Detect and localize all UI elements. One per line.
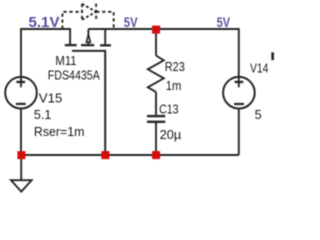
svg-text:Rser=1m: Rser=1m (34, 125, 85, 139)
svg-text:5V: 5V (124, 14, 138, 30)
svg-text:5.1: 5.1 (34, 108, 51, 122)
svg-text:R23: R23 (165, 60, 185, 74)
svg-text:5: 5 (255, 108, 262, 122)
svg-text:1m: 1m (166, 79, 182, 93)
svg-text:C13: C13 (159, 103, 179, 117)
svg-text:5V: 5V (217, 14, 231, 30)
svg-text:V15: V15 (39, 92, 63, 106)
svg-text:V14: V14 (250, 61, 268, 75)
svg-text:FDS4435A: FDS4435A (48, 68, 101, 82)
svg-text:5.1V: 5.1V (29, 15, 60, 31)
svg-text:20µ: 20µ (160, 128, 182, 142)
svg-text:M11: M11 (55, 54, 76, 68)
